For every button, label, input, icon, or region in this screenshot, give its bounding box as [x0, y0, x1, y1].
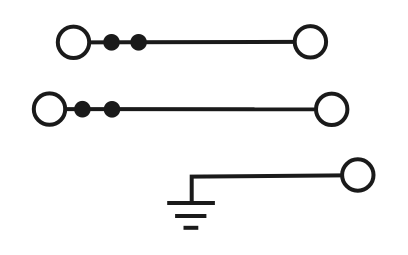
terminal contact circle, level 2 right [316, 94, 347, 125]
ground symbol bar 3 (bottom, narrowest) [184, 226, 199, 230]
terminal contact circle, level 1 right [295, 26, 326, 57]
wire level 1 [89, 40, 294, 45]
terminal contact circle, level 3 right [342, 159, 373, 190]
bridge point dot 1, level 2 [74, 101, 91, 118]
wire level 3 (corner from ground stem to right contact) [192, 175, 342, 203]
bridge point dot 2, level 2 [104, 101, 121, 118]
terminal contact circle, level 1 left [58, 27, 89, 58]
terminal contact circle, level 2 left [34, 93, 65, 124]
bridge point dot 2, level 1 [130, 34, 147, 51]
wire level 2 [65, 107, 316, 111]
ground symbol bar 1 (top, widest) [167, 201, 215, 205]
bridge point dot 1, level 1 [103, 34, 120, 51]
ground symbol bar 2 (middle) [175, 214, 206, 218]
